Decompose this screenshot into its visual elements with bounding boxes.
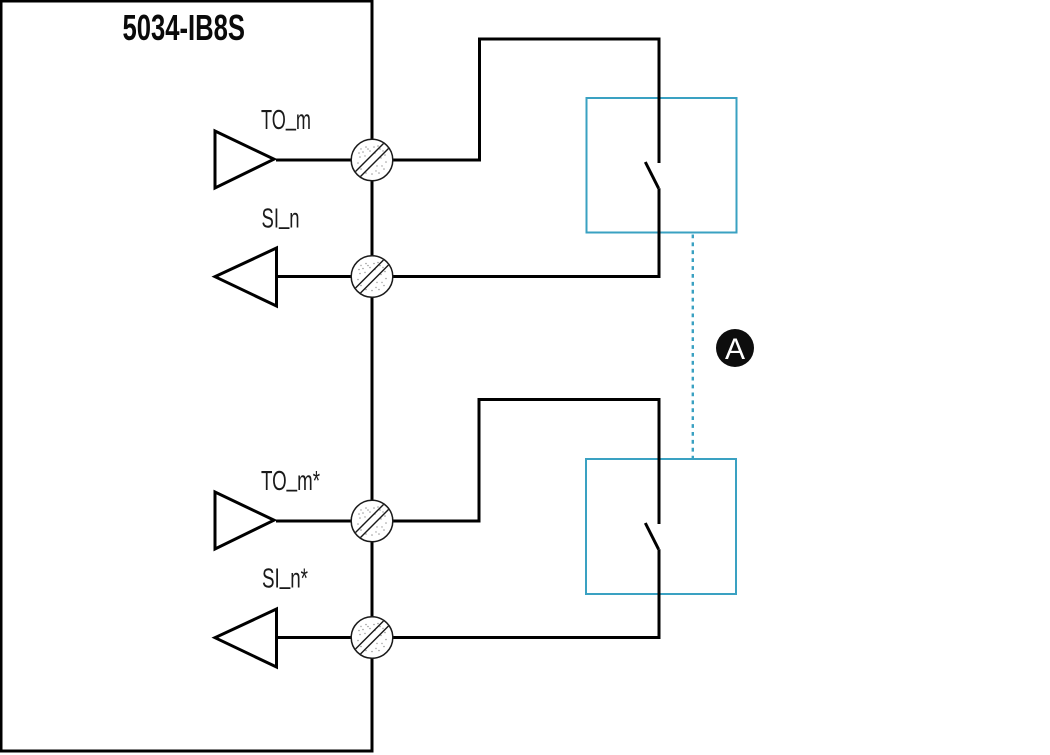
svg-text:5034-IB8S: 5034-IB8S (123, 7, 246, 48)
terminal SI_n (351, 256, 393, 298)
switch enclosure box 2 (586, 459, 736, 594)
callout A (716, 329, 754, 367)
module box 5034-IB8S (1, 1, 372, 751)
svg-text:SI_n: SI_n (262, 198, 300, 233)
terminal TO_m* (351, 500, 393, 542)
svg-text:SI_n*: SI_n* (262, 558, 308, 593)
switch 1 blade (645, 162, 658, 188)
wire riser up and top run (lower circuit) (479, 400, 659, 523)
output triangle TO_m (215, 131, 274, 188)
wire riser up and top run (480, 39, 660, 162)
wire drop into switch 2 (658, 398, 661, 524)
terminal TO_m (351, 139, 393, 181)
wire below switch 1 to SI_n row (276, 188, 659, 276)
output triangle TO_m* (215, 492, 274, 549)
svg-text:TO_m: TO_m (261, 100, 311, 135)
svg-text:TO_m*: TO_m* (261, 461, 320, 496)
terminal SI_n* (351, 617, 393, 659)
wire TO_m* to riser (276, 520, 479, 523)
input triangle SI_n (215, 248, 277, 306)
switch enclosure box 1 (587, 98, 737, 233)
wire drop into switch 1 (658, 38, 661, 164)
switch 2 blade (645, 523, 658, 549)
input triangle SI_n* (215, 609, 277, 667)
dashed link line (692, 235, 694, 459)
svg-text:A: A (725, 333, 745, 366)
wire below switch 2 to SI_n* row (276, 549, 659, 637)
wire TO_m to riser (276, 159, 480, 162)
